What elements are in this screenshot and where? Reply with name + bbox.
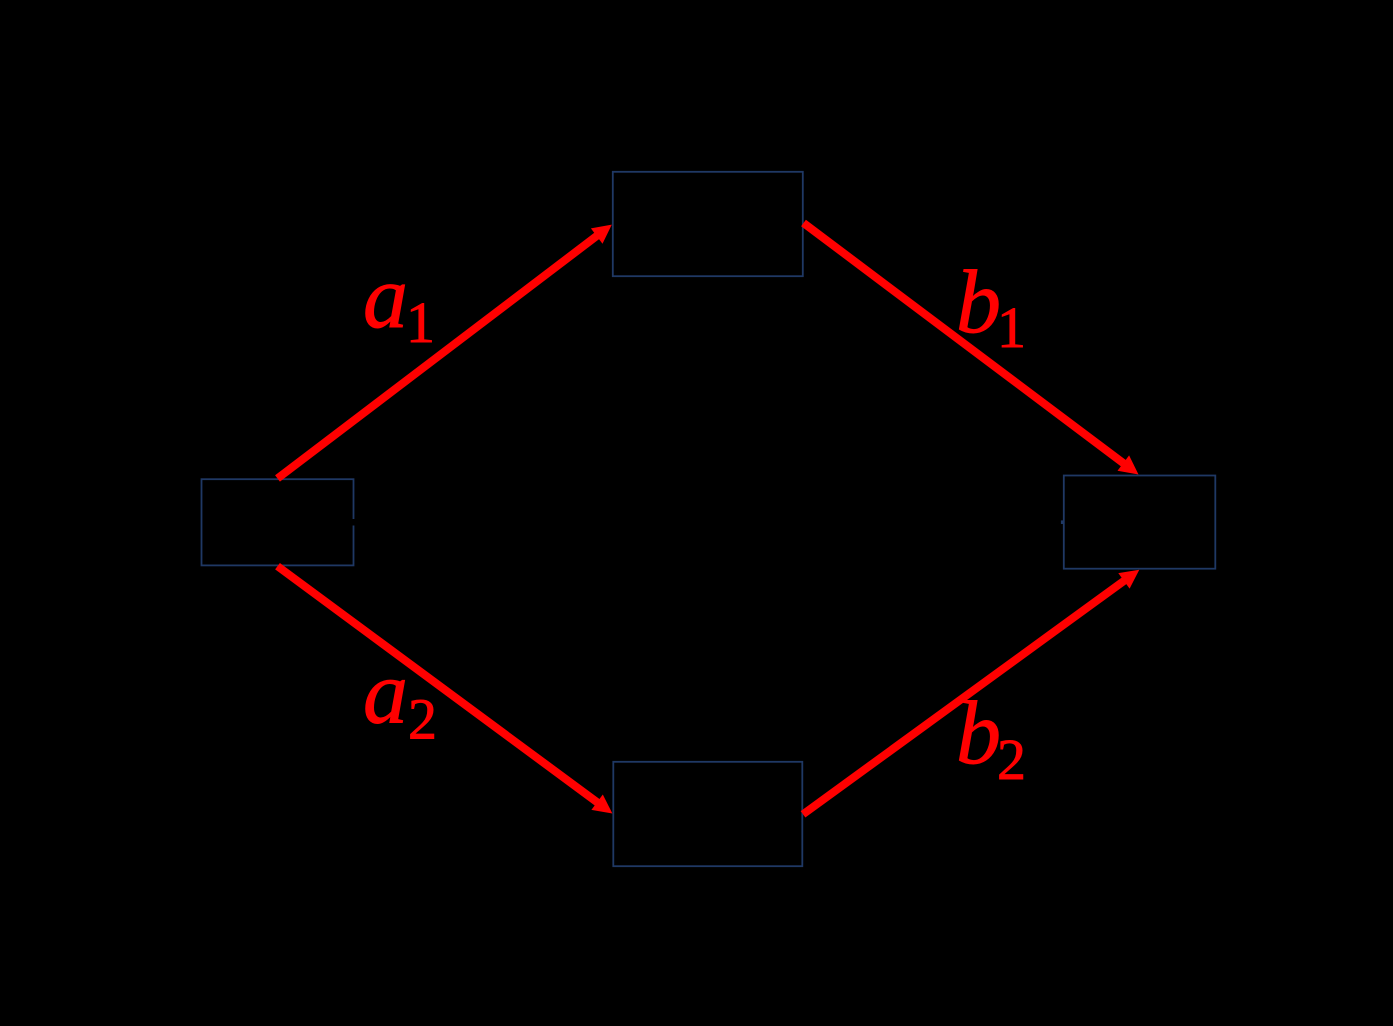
arrow a1 (left box to top box)	[278, 225, 612, 479]
connector end tick at right box	[1061, 520, 1063, 524]
arrow b1 (top box to right box)	[804, 223, 1139, 475]
node box Q (right)	[1064, 476, 1216, 569]
arrow a2 (left box to bottom box)	[278, 566, 613, 813]
node box X2 (bottom)	[613, 762, 802, 866]
arrow b2 (bottom box to right box)	[803, 570, 1139, 815]
node box X1 (top)	[613, 172, 803, 276]
node box P (left)	[202, 479, 354, 565]
black connector wire left box to right box (invisible, cuts border)	[350, 519, 1060, 526]
